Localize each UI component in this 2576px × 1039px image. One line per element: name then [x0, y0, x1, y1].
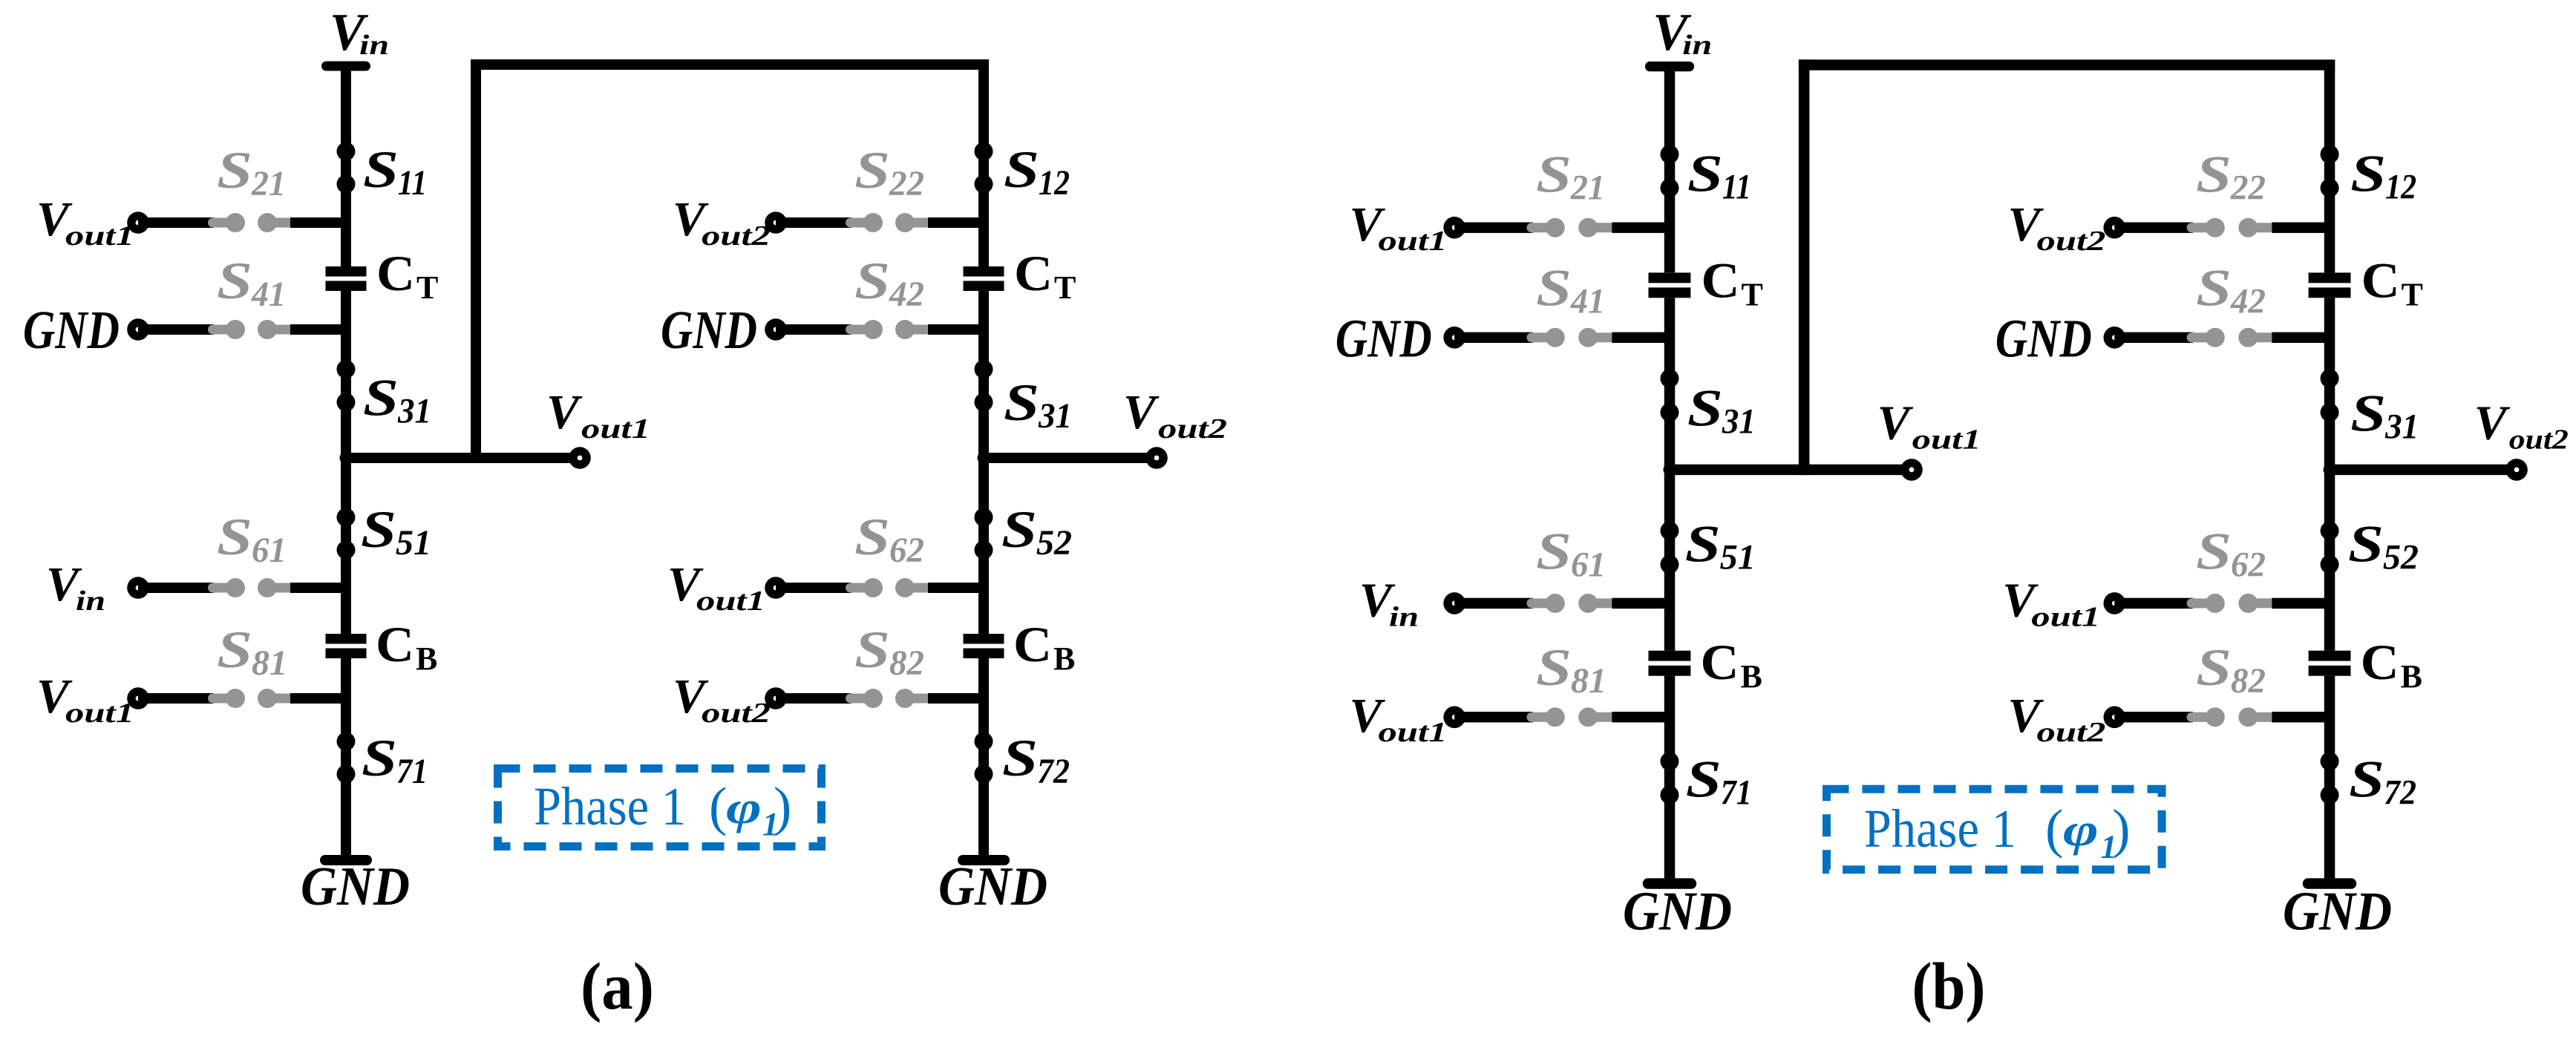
wire: [290, 583, 346, 593]
svg-text:T: T: [1054, 269, 1076, 306]
svg-text:S: S: [2196, 523, 2232, 581]
switch S81 open contacts: [208, 689, 294, 708]
wire: [776, 583, 851, 593]
wire: [776, 324, 851, 335]
wire: [290, 324, 346, 335]
label S12: [1004, 141, 1070, 203]
svg-text:S: S: [1004, 374, 1039, 432]
svg-text:S: S: [854, 621, 890, 679]
svg-text:62: 62: [889, 531, 924, 570]
svg-text:S: S: [1002, 730, 1038, 787]
svg-text:S: S: [2196, 260, 2232, 318]
svg-text:S: S: [363, 370, 399, 427]
terminal node (y=300): [127, 212, 149, 234]
svg-text:21: 21: [1570, 168, 1605, 207]
label S41: [217, 252, 286, 314]
wire: [2272, 223, 2330, 233]
wire: [1612, 332, 1670, 343]
ground symbol (a): [958, 855, 1010, 865]
svg-text:(: (: [2045, 799, 2063, 859]
svg-text:52: 52: [2383, 537, 2419, 577]
label S42: [2196, 260, 2266, 321]
svg-text:11: 11: [398, 163, 427, 203]
svg-text:B: B: [1053, 640, 1075, 677]
svg-text:T: T: [1742, 276, 1763, 312]
svg-text:S: S: [362, 730, 397, 787]
svg-text:81: 81: [252, 643, 287, 683]
svg-text:31: 31: [1722, 402, 1756, 442]
svg-text:GND: GND: [301, 856, 410, 917]
wire: [928, 583, 984, 593]
switch S42 open contacts: [2187, 328, 2276, 347]
wire: [928, 693, 984, 704]
terminal node (y=792): [127, 577, 149, 599]
svg-text:S: S: [1536, 145, 1572, 203]
wire: [2114, 332, 2193, 343]
label S71: [362, 730, 428, 791]
terminal Vout2 (node output): [2505, 459, 2528, 481]
svg-text:out2: out2: [702, 698, 771, 729]
wire (vertical rail middle segment): [1664, 298, 1676, 650]
svg-text:62: 62: [2231, 545, 2266, 585]
svg-text:in: in: [76, 586, 105, 617]
wire: [2272, 598, 2330, 609]
switch S12 contact dots: [975, 142, 993, 194]
svg-text:31: 31: [2384, 407, 2419, 446]
switch S22 open contacts: [2187, 218, 2276, 237]
svg-text:21: 21: [251, 164, 286, 203]
switch S42 open contacts: [846, 320, 932, 339]
svg-text:φ: φ: [2063, 805, 2099, 856]
terminal node (y=300): [2104, 217, 2126, 239]
svg-text:S: S: [217, 142, 252, 200]
svg-text:out2: out2: [2509, 425, 2569, 456]
label CT: [376, 245, 438, 306]
label Vout1 (right branch): [667, 557, 765, 617]
svg-text:12: 12: [2385, 167, 2416, 206]
svg-text:41: 41: [1570, 282, 1605, 321]
wire: [2114, 598, 2193, 609]
wire: [1454, 332, 1533, 343]
switch S22 open contacts: [846, 213, 932, 232]
svg-text:V: V: [2474, 396, 2511, 450]
label Vout1 (left lower): [36, 669, 134, 729]
label S22: [2196, 145, 2266, 207]
terminal Vout1 (node output): [1900, 459, 1923, 481]
capacitor CT (right): [2309, 272, 2351, 298]
svg-text:22: 22: [2230, 168, 2266, 207]
svg-text:S: S: [1001, 501, 1037, 559]
capacitor CB: [326, 634, 367, 658]
label Vout2 (right branch): [673, 192, 771, 252]
switch S82 open contacts: [846, 689, 932, 708]
wire: [928, 217, 984, 228]
label Vout1 (left lower): [1350, 689, 1448, 748]
svg-text:42: 42: [889, 275, 924, 314]
terminal bar Vin (a): [321, 62, 370, 71]
svg-text:S: S: [1536, 260, 1572, 318]
svg-text:S: S: [217, 508, 252, 566]
capacitor CT: [326, 266, 367, 291]
label CB: [1701, 634, 1762, 695]
svg-text:T: T: [2402, 276, 2423, 312]
switch S41 open contacts: [1527, 328, 1616, 347]
wire: [138, 324, 214, 335]
svg-text:GND: GND: [1623, 881, 1732, 942]
svg-text:S: S: [217, 252, 252, 310]
svg-text:out2: out2: [2037, 717, 2106, 748]
wire (vertical rail top segment): [1664, 67, 1676, 273]
label Vin (top): [330, 4, 389, 62]
switch S31 contact dots: [1661, 369, 1679, 422]
label S11: [1687, 145, 1751, 206]
wire (node Vout1 output): [1670, 465, 1912, 475]
svg-text:V: V: [546, 385, 583, 439]
label S52: [1001, 501, 1072, 563]
wire: [776, 693, 851, 704]
label Vout2 (node): [2474, 396, 2569, 456]
wire: [2272, 712, 2330, 722]
label Vout2 (right branch): [2008, 197, 2106, 257]
switch S52 contact dots: [2321, 522, 2339, 574]
switch S71 contact dots: [337, 732, 356, 784]
svg-text:T: T: [416, 269, 438, 306]
svg-text:12: 12: [1039, 163, 1070, 203]
switch S72 contact dots: [975, 732, 993, 784]
label S41: [1536, 260, 1605, 321]
label S21: [217, 142, 286, 203]
wire: [138, 693, 214, 704]
label Vout1 (node): [1877, 396, 1981, 456]
switch S71 contact dots: [1661, 752, 1679, 804]
switch S21 open contacts: [1527, 218, 1616, 237]
capacitor CT (right): [964, 266, 1004, 291]
terminal node (y=792): [2104, 592, 2126, 614]
ground symbol (b): [1643, 878, 1696, 888]
switch S51 contact dots: [1661, 522, 1679, 574]
label S71: [1686, 750, 1752, 812]
svg-text:GND: GND: [1995, 309, 2092, 369]
svg-text:C: C: [1014, 245, 1053, 301]
svg-text:B: B: [1741, 658, 1762, 695]
svg-text:GND: GND: [1336, 309, 1432, 369]
switch S11 contact dots: [337, 142, 356, 194]
svg-text:51: 51: [396, 523, 431, 563]
svg-text:S: S: [1536, 639, 1572, 697]
svg-text:S: S: [363, 141, 399, 199]
label S51: [1685, 515, 1756, 577]
label S31 (right): [2350, 384, 2419, 446]
svg-text:Phase 1: Phase 1: [534, 776, 686, 836]
wire: [138, 583, 214, 593]
svg-text:S: S: [2349, 750, 2384, 808]
svg-text:81: 81: [1571, 661, 1606, 701]
svg-text:out1: out1: [1379, 717, 1448, 748]
wire (vertical rail bottom segment): [978, 658, 989, 855]
terminal node (y=792): [1443, 592, 1465, 614]
svg-text:S: S: [1687, 145, 1723, 203]
label S21: [1536, 145, 1605, 207]
svg-text:S: S: [1686, 750, 1722, 808]
terminal bar Vin (b): [1645, 62, 1694, 71]
terminal node (y=444): [765, 318, 787, 341]
switch S81 open contacts: [1527, 707, 1616, 727]
svg-text:72: 72: [1037, 752, 1070, 791]
label Vin (left): [46, 557, 105, 617]
terminal node (y=792): [765, 577, 787, 599]
junction (node Vout1): [1664, 463, 1676, 476]
svg-text:S: S: [1685, 515, 1721, 573]
phase annotation box (a): [498, 769, 822, 847]
svg-text:C: C: [1701, 634, 1739, 690]
switch S72 contact dots: [2321, 752, 2339, 804]
svg-text:GND: GND: [2283, 881, 2392, 942]
svg-text:(b): (b): [1912, 950, 1986, 1023]
wire: [138, 217, 214, 228]
svg-text:C: C: [1013, 616, 1052, 672]
terminal node (y=300): [1443, 217, 1465, 239]
wire (vertical rail middle segment): [978, 291, 989, 634]
svg-text:42: 42: [2230, 282, 2266, 321]
svg-text:in: in: [359, 30, 389, 61]
wire: [1612, 223, 1670, 233]
svg-text:S: S: [854, 508, 890, 566]
svg-text:Phase 1: Phase 1: [1864, 799, 2016, 859]
svg-text:φ: φ: [726, 783, 762, 833]
label CT (right): [2361, 252, 2423, 312]
label S52: [2348, 515, 2419, 577]
label CB (right): [2361, 634, 2422, 695]
svg-text:GND: GND: [23, 300, 120, 360]
svg-text:in: in: [1682, 30, 1712, 61]
svg-text:61: 61: [252, 531, 287, 570]
switch S61 open contacts: [1527, 594, 1616, 613]
junction (node Vout2): [2324, 463, 2336, 476]
svg-text:C: C: [376, 245, 415, 301]
label S81: [217, 621, 287, 683]
svg-text:GND: GND: [938, 856, 1047, 917]
wire (vertical rail bottom segment): [2324, 676, 2335, 879]
label S82: [2196, 639, 2266, 701]
capacitor CB: [1649, 651, 1691, 676]
terminal node (y=444): [1443, 327, 1465, 349]
svg-text:S: S: [361, 501, 396, 559]
label CT: [1701, 252, 1763, 312]
svg-text:C: C: [2361, 634, 2399, 690]
switch S31 (right) contact dots: [2321, 369, 2339, 422]
wire: [776, 217, 851, 228]
label Phase 1 (phi1): [1864, 799, 2131, 865]
svg-text:B: B: [2401, 658, 2422, 695]
ground symbol (a): [320, 855, 372, 865]
label S31: [1687, 380, 1756, 442]
switch S12 contact dots: [2321, 145, 2339, 197]
svg-text:): ): [2112, 799, 2130, 859]
terminal node (y=444): [2104, 327, 2126, 349]
terminal node (y=941): [127, 687, 149, 709]
wire (vertical rail bottom segment): [1664, 676, 1676, 879]
wire: [290, 693, 346, 704]
label CB: [376, 616, 437, 677]
switch S62 open contacts: [846, 578, 932, 597]
label S82: [854, 621, 924, 683]
svg-text:S: S: [2350, 145, 2386, 203]
wire (node Vout2 output): [2330, 465, 2517, 475]
switch S51 contact dots: [337, 508, 356, 560]
label S62: [854, 508, 924, 570]
switch S31 contact dots: [337, 360, 356, 412]
svg-text:S: S: [1687, 380, 1723, 438]
svg-text:82: 82: [889, 643, 924, 683]
label Vout2 (right branch lower): [673, 669, 771, 729]
label Vout1 (left): [36, 192, 134, 252]
wire: [2272, 332, 2330, 343]
svg-text:out1: out1: [65, 698, 134, 729]
wire (vertical rail top segment): [341, 66, 351, 266]
svg-text:72: 72: [2384, 773, 2416, 812]
svg-text:S: S: [854, 252, 890, 310]
label Vout1 (node): [546, 385, 650, 445]
svg-text:out1: out1: [65, 220, 134, 252]
label S61: [217, 508, 287, 570]
wire (vertical rail middle segment): [341, 291, 351, 634]
terminal node (y=941): [765, 687, 787, 709]
wire (node Vout2 output): [984, 453, 1157, 463]
terminal Vout2 (node output): [1145, 447, 1168, 469]
terminal node (y=941): [1443, 707, 1465, 729]
svg-text:41: 41: [251, 275, 286, 314]
svg-text:GND: GND: [661, 300, 757, 360]
svg-text:(a): (a): [581, 950, 654, 1023]
terminal node (y=941): [2104, 707, 2126, 729]
wire: [290, 217, 346, 228]
svg-text:82: 82: [2231, 661, 2266, 701]
label Vout2 (node): [1123, 385, 1227, 445]
svg-text:out1: out1: [696, 586, 765, 617]
label S81: [1536, 639, 1606, 701]
switch S31 (right) contact dots: [975, 360, 993, 412]
wire: [2114, 712, 2193, 722]
label S61: [1536, 523, 1606, 585]
svg-text:S: S: [2348, 515, 2384, 573]
svg-text:in: in: [1389, 601, 1419, 632]
wire: [1454, 598, 1533, 609]
svg-text:S: S: [2196, 145, 2232, 203]
capacitor CB (right): [964, 634, 1004, 658]
wire: [1612, 598, 1670, 609]
svg-text:out2: out2: [1158, 413, 1227, 445]
wire: [1454, 223, 1533, 233]
wire (vertical rail top segment): [978, 60, 989, 267]
svg-text:V: V: [1123, 385, 1160, 439]
wire (vertical rail middle segment): [2324, 298, 2335, 650]
label S22: [854, 142, 924, 203]
wire (vertical rail bottom segment): [341, 658, 351, 855]
wire (top loop horizontal): [471, 59, 989, 70]
svg-text:B: B: [416, 640, 437, 677]
switch S61 open contacts: [208, 578, 294, 597]
svg-text:51: 51: [1720, 537, 1756, 577]
svg-text:out2: out2: [702, 220, 771, 252]
svg-text:S: S: [217, 621, 252, 679]
junction (node Vout1): [340, 452, 353, 465]
capacitor CT: [1649, 272, 1691, 298]
terminal node (y=444): [127, 318, 149, 341]
label Phase 1 (phi1): [534, 776, 791, 842]
ground symbol (b): [2303, 878, 2356, 888]
label S42: [854, 252, 924, 314]
label CB (right): [1013, 616, 1075, 677]
label S31: [363, 370, 431, 431]
label Vin (top): [1653, 4, 1712, 62]
svg-text:out1: out1: [1379, 226, 1448, 257]
switch S11 contact dots: [1661, 145, 1679, 197]
svg-text:22: 22: [889, 164, 924, 203]
label Vout2 (right branch lower): [2008, 689, 2106, 748]
svg-text:C: C: [2361, 252, 2400, 308]
label S72: [2349, 750, 2416, 812]
svg-text:S: S: [1536, 523, 1572, 581]
svg-text:71: 71: [396, 752, 428, 791]
wire (top loop vertical drop): [471, 59, 481, 463]
wire (top loop vertical drop): [1799, 59, 1810, 475]
wire: [1454, 712, 1533, 722]
wire: [1612, 712, 1670, 722]
label S31 (right): [1004, 374, 1072, 436]
terminal node (y=300): [765, 212, 787, 234]
svg-text:out1: out1: [581, 413, 650, 445]
svg-text:S: S: [2196, 639, 2232, 697]
svg-text:S: S: [2350, 384, 2386, 442]
switch S21 open contacts: [208, 213, 294, 232]
svg-text:): ): [774, 776, 791, 836]
svg-text:out1: out1: [2031, 601, 2100, 632]
wire (node Vout1 output): [346, 453, 580, 463]
switch S82 open contacts: [2187, 707, 2276, 727]
label S11: [363, 141, 427, 203]
wire (top loop horizontal): [1799, 59, 2335, 70]
svg-text:out1: out1: [1912, 425, 1981, 456]
svg-text:C: C: [376, 616, 414, 672]
label S72: [1002, 730, 1070, 791]
label CT (right): [1014, 245, 1076, 306]
svg-text:31: 31: [397, 392, 431, 431]
label Vout1 (right branch): [2002, 573, 2100, 632]
capacitor CB (right): [2309, 651, 2351, 676]
wire (vertical rail top segment): [2324, 60, 2335, 273]
wire: [2114, 223, 2193, 233]
label Vout1 (left): [1350, 197, 1448, 257]
svg-text:(: (: [709, 776, 727, 836]
svg-text:11: 11: [1722, 167, 1751, 206]
junction (node Vout2): [978, 452, 990, 465]
label S51: [361, 501, 431, 563]
svg-text:52: 52: [1036, 523, 1072, 563]
terminal Vout1 (node output): [569, 447, 591, 469]
switch S52 contact dots: [975, 508, 993, 560]
label S62: [2196, 523, 2266, 585]
svg-text:71: 71: [1721, 773, 1752, 812]
svg-text:out2: out2: [2037, 226, 2106, 257]
svg-text:61: 61: [1571, 545, 1606, 585]
switch S62 open contacts: [2187, 594, 2276, 613]
phase annotation box (b): [1827, 789, 2163, 869]
switch S41 open contacts: [208, 320, 294, 339]
svg-text:C: C: [1701, 252, 1740, 308]
svg-text:31: 31: [1038, 396, 1072, 436]
label Vin (left): [1359, 573, 1419, 632]
wire: [928, 324, 984, 335]
